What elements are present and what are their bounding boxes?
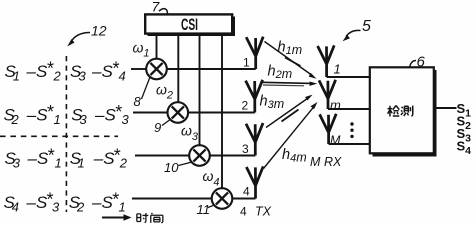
RX antenna 1 [318, 45, 335, 77]
TX antenna 2 [246, 80, 263, 113]
channel h2m arrow [262, 82, 317, 86]
svg-text:12: 12 [91, 23, 107, 39]
svg-text:–S: –S [94, 106, 116, 125]
svg-text:1: 1 [78, 156, 85, 171]
间 [151, 213, 163, 223]
wire row3 left segment [135, 155, 189, 157]
wire CSI to mixer 9 [177, 35, 179, 102]
vertical dots between RX m and RX M [350, 122, 353, 138]
wire row2 left segment [133, 112, 167, 114]
svg-text:RX: RX [324, 155, 342, 169]
svg-text:3: 3 [79, 69, 87, 84]
wire RX1 to detector [327, 76, 370, 78]
svg-text:2: 2 [242, 99, 249, 113]
channel h4m arrow [264, 102, 318, 169]
CSI block U-CSI [145, 14, 235, 36]
svg-text:M: M [310, 155, 321, 169]
svg-text:–S: –S [27, 149, 49, 168]
svg-text:2: 2 [11, 112, 20, 127]
svg-text:3: 3 [80, 112, 88, 127]
svg-text:TX: TX [255, 205, 272, 219]
svg-text:4: 4 [119, 69, 126, 84]
dashed vertical separator (time slots) [65, 56, 67, 212]
svg-text:3: 3 [242, 142, 249, 156]
时 [137, 213, 148, 223]
svg-text:1: 1 [334, 62, 341, 77]
symbol row3: S3 -S*1 | S1 -S*2 [5, 146, 128, 171]
wire detector output [434, 107, 457, 109]
svg-text:2: 2 [119, 156, 128, 171]
wire RXM to detector [329, 143, 370, 145]
wire RXm to detector [328, 108, 370, 110]
wire CSI to mixer 8 [156, 35, 158, 59]
svg-text:3: 3 [13, 156, 21, 171]
dashed horizontal separator [0, 135, 118, 137]
text 时间 (time) drawn strokes [137, 213, 163, 223]
label 10 + leader [164, 160, 192, 175]
svg-text:9: 9 [154, 120, 161, 135]
TX antenna 1 [246, 37, 263, 69]
mixer 9 [168, 102, 189, 123]
wire row1 left segment [131, 68, 146, 70]
svg-text:11: 11 [197, 202, 211, 217]
label 11 + leader [197, 202, 215, 217]
svg-text:6: 6 [417, 54, 426, 71]
mixer 10 [189, 145, 210, 166]
label 7 [152, 0, 168, 15]
svg-text:m: m [330, 98, 341, 113]
svg-text:2: 2 [53, 69, 62, 84]
wire row4 right segment to TX antenna 4 [232, 198, 255, 200]
svg-text:7: 7 [152, 0, 161, 15]
text 检测 (detection) drawn strokes [388, 106, 413, 117]
svg-text:2: 2 [76, 200, 85, 215]
svg-text:4: 4 [243, 185, 250, 199]
wire row1 right segment to TX antenna 1 [167, 68, 256, 70]
svg-text:–S: –S [26, 193, 48, 212]
RX antenna m [319, 80, 336, 109]
svg-text:M: M [330, 134, 341, 148]
svg-text:1: 1 [243, 56, 250, 70]
svg-text:–S: –S [26, 106, 48, 125]
wire row3 right segment to TX antenna 3 [210, 155, 255, 157]
svg-text:–S: –S [93, 149, 115, 168]
svg-text:5: 5 [362, 18, 371, 35]
channel h3m arrow [266, 95, 313, 128]
测 [401, 106, 413, 117]
svg-text:3: 3 [122, 112, 130, 127]
svg-text:–S: –S [26, 62, 48, 81]
RX antenna M [320, 114, 337, 144]
svg-text:–S: –S [91, 62, 113, 81]
svg-text:1: 1 [55, 156, 62, 171]
label 8 + leader [134, 78, 150, 110]
mixer 11 [212, 188, 233, 209]
label 12 + curved arrow [67, 23, 107, 47]
detector block U6 (检测) [370, 67, 437, 156]
svg-text:CSI: CSI [181, 16, 198, 34]
svg-text:–S: –S [91, 193, 113, 212]
TX antenna 4 [246, 166, 263, 198]
wire CSI to mixer 11 [221, 35, 223, 188]
svg-text:8: 8 [134, 94, 142, 109]
label 9 + leader [154, 120, 170, 135]
wire row4 left segment [132, 198, 212, 200]
symbol row4: S4 -S*3 | S2 -S*1 [4, 190, 126, 215]
svg-text:3: 3 [52, 200, 60, 215]
channel h1m arrow [265, 42, 317, 79]
label 5 + curved arrow [343, 18, 371, 41]
mixer 8 [146, 59, 167, 80]
检 [388, 106, 400, 117]
wire CSI to mixer 10 [199, 35, 201, 145]
time axis arrow [102, 214, 132, 221]
svg-text:1: 1 [54, 112, 61, 127]
svg-text:4: 4 [240, 205, 247, 219]
symbol row1: S1 -S*2 | S3 -S*4 [5, 59, 126, 84]
TX antenna 3 [246, 123, 263, 156]
svg-text:10: 10 [164, 160, 179, 175]
wire row2 right segment to TX antenna 2 [188, 112, 255, 114]
symbol row2: S2 -S*1 | S3 -S*3 [4, 102, 130, 127]
svg-text:4: 4 [12, 200, 19, 215]
label 6 [410, 54, 426, 71]
svg-text:1: 1 [13, 69, 20, 84]
svg-text:1: 1 [119, 200, 126, 215]
